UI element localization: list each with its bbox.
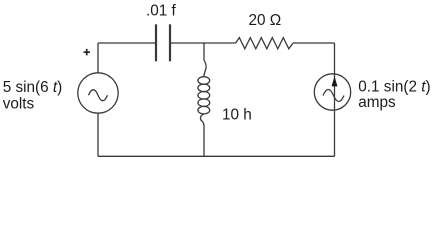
svg-text:amps: amps xyxy=(358,94,396,111)
svg-text:10 h: 10 h xyxy=(222,106,252,123)
svg-text:volts: volts xyxy=(3,95,35,112)
svg-text:20 Ω: 20 Ω xyxy=(249,12,282,29)
svg-text:.01 f: .01 f xyxy=(146,3,177,20)
svg-text:5 sin(6 t): 5 sin(6 t) xyxy=(3,79,63,96)
